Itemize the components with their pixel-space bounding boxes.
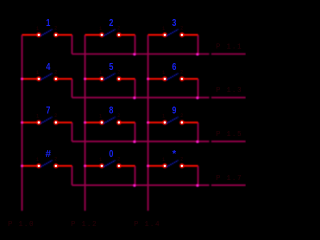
svg-text:2: 2 [109,17,113,28]
wire: row net P1.5 (horizontal y=141.4) [72,140,246,142]
wire: S11 right pin drop to row P1.7 [134,166,136,185]
switch S8 (key "8") [85,105,135,125]
lead: S12 pin 1 (left) [148,165,165,167]
svg-text:2: 2 [54,26,57,32]
contact: S10 right [54,164,59,169]
lead: S5 pin 1 (left) [85,78,102,80]
lead: S3 pin 1 (left) [148,34,165,36]
lever: S4 (open) [41,73,53,79]
contact: S2 left [99,33,104,38]
svg-text:1: 1 [99,26,102,32]
svg-text:7: 7 [46,105,50,116]
svg-text:6: 6 [172,61,176,72]
wire: S12 right pin drop to row P1.7 [197,166,199,185]
contact: S8 left [99,120,104,125]
junction: row P1.5 / drop x=135 [133,140,136,143]
svg-text:2: 2 [54,70,57,76]
svg-text:3: 3 [172,17,176,28]
svg-text:2: 2 [180,26,183,32]
svg-text:1: 1 [36,70,39,76]
contact: S8 right [117,120,122,125]
wire: S8 right pin drop to row P1.5 [134,123,136,142]
lever: S2 (open) [104,29,116,35]
svg-text:P 1.2: P 1.2 [71,221,97,229]
svg-text:1: 1 [36,114,39,120]
contact: S1 right [54,33,59,38]
junction: row P1.3 / drop x=198 [196,97,199,100]
lever: S3 (open) [167,29,179,35]
lead: S2 pin 2 (right) [119,34,135,36]
contact: S4 left [36,77,41,82]
junction: column P1.4 / S9 pin1 [147,121,150,124]
lever: S8 (open) [104,117,116,123]
contact: S9 left [162,120,167,125]
wire: row net P1.3 (horizontal y=97.6) [72,97,246,99]
svg-text:1: 1 [36,26,39,32]
lead: S9 pin 1 (left) [148,122,165,124]
junction: column P1.4 / S6 pin1 [147,78,150,81]
lead: S4 pin 2 (right) [56,78,72,80]
lead: S7 pin 2 (right) [56,122,72,124]
switch S4 (key "4") [22,61,72,81]
junction: row P1.1 / drop x=135 [133,53,136,56]
contact: S6 left [162,77,167,82]
svg-text:2: 2 [117,26,120,32]
lever: S7 (open) [41,117,53,123]
svg-text:1: 1 [99,157,102,163]
contact: S12 left [162,164,167,169]
contact: S9 right [180,120,185,125]
lead: S1 pin 2 (right) [56,34,72,36]
lever: S5 (open) [104,73,116,79]
switch S6 (key "6") [148,61,198,81]
wire: S10 right pin drop to row P1.7 [71,166,73,185]
lead: S10 pin 1 (left) [22,165,39,167]
contact: S11 right [117,164,122,169]
switch S7 (key "7") [22,105,72,125]
svg-text:2: 2 [180,157,183,163]
svg-text:4: 4 [46,61,50,72]
wire: column net P1.4 (vertical x=148) [147,35,149,211]
svg-text:5: 5 [109,61,113,72]
wire: S5 right pin drop to row P1.3 [134,79,136,98]
contact: S12 right [180,164,185,169]
lead: S9 pin 2 (right) [182,122,198,124]
lead: S3 pin 2 (right) [182,34,198,36]
switch S10 (key "#") [22,149,72,168]
junction: column P1.2 / S8 pin1 [84,121,87,124]
junction: column P1.2 / S5 pin1 [84,78,87,81]
svg-text:*: * [172,149,176,160]
lever: S9 (open) [167,117,179,123]
junction: column P1.2 / S11 pin1 [84,165,87,168]
wire: row net P1.1 (horizontal y=54) [72,53,246,55]
lead: S6 pin 2 (right) [182,78,198,80]
svg-text:2: 2 [180,70,183,76]
svg-text:0: 0 [109,148,113,159]
svg-text:#: # [45,149,51,160]
junction: row P1.3 / drop x=135 [133,97,136,100]
switch S12 (key "*") [148,149,198,168]
lead: S5 pin 2 (right) [119,78,135,80]
svg-text:P 1.1: P 1.1 [216,44,242,52]
lead: S8 pin 2 (right) [119,122,135,124]
svg-text:P 1.3: P 1.3 [216,87,242,95]
svg-text:2: 2 [117,113,120,119]
svg-text:1: 1 [162,70,165,76]
switch S9 (key "9") [148,105,198,125]
switch S11 (key "0") [85,148,135,168]
svg-text:1: 1 [99,114,102,120]
wire: S2 right pin drop to row P1.1 [134,35,136,54]
svg-text:1: 1 [162,157,165,163]
contact: S6 right [180,77,185,82]
switch S3 (key "3") [148,17,198,37]
svg-text:2: 2 [117,70,120,76]
svg-text:2: 2 [117,157,120,163]
lever: S11 (open) [104,160,116,166]
wire: S7 right pin drop to row P1.5 [71,123,73,142]
contact: S3 right [180,33,185,38]
svg-text:P 1.7: P 1.7 [216,175,242,183]
svg-text:2: 2 [54,157,57,163]
contact: S1 left [36,33,41,38]
svg-text:P 1.4: P 1.4 [134,221,160,229]
junction: row P1.7 / drop x=135 [133,184,136,187]
lever: S12 (open) [167,160,179,166]
lead: S7 pin 1 (left) [22,122,39,124]
wire: S3 right pin drop to row P1.1 [197,35,199,54]
svg-text:1: 1 [99,70,102,76]
contact: S5 left [99,77,104,82]
junction: row P1.5 / drop x=198 [196,140,199,143]
wire: S1 right pin drop to row P1.1 [71,35,73,54]
lead: S12 pin 2 (right) [182,165,198,167]
svg-text:9: 9 [172,105,176,116]
svg-text:1: 1 [36,157,39,163]
junction: column P1.4 / S12 pin1 [147,165,150,168]
contact: S10 left [36,164,41,169]
junction: row P1.7 / drop x=198 [196,184,199,187]
contact: S5 right [117,77,122,82]
contact: S11 left [99,164,104,169]
contact: S7 right [54,120,59,125]
junction: column P1.0 / S7 pin1 [21,121,24,124]
lead: S11 pin 2 (right) [119,165,135,167]
svg-text:P 1.5: P 1.5 [216,131,242,139]
svg-text:1: 1 [46,17,50,28]
contact: S4 right [54,77,59,82]
contact: S2 right [117,33,122,38]
svg-text:2: 2 [54,113,57,119]
svg-text:1: 1 [162,114,165,120]
lead: S10 pin 2 (right) [56,165,72,167]
lead: S2 pin 1 (left) [85,34,102,36]
svg-text:1: 1 [162,26,165,32]
lead: S1 pin 1 (left) [22,34,39,36]
wire: column net P1.0 (vertical x=22) [21,35,23,211]
lead: S8 pin 1 (left) [85,122,102,124]
svg-text:8: 8 [109,105,113,116]
wire: column net P1.2 (vertical x=85) [84,35,86,211]
wire: S4 right pin drop to row P1.3 [71,79,73,98]
lever: S10 (open) [41,160,53,166]
switch S1 (key "1") [22,17,72,37]
lever: S6 (open) [167,73,179,79]
wire: S6 right pin drop to row P1.3 [197,79,199,98]
lead: S4 pin 1 (left) [22,78,39,80]
contact: S7 left [36,120,41,125]
svg-text:2: 2 [180,113,183,119]
wire: row net P1.7 (horizontal y=185.2) [72,184,246,186]
switch S5 (key "5") [85,61,135,81]
lever: S1 (open) [41,29,53,35]
lead: S6 pin 1 (left) [148,78,165,80]
contact: S3 left [162,33,167,38]
junction: column P1.0 / S4 pin1 [21,78,24,81]
wire: S9 right pin drop to row P1.5 [197,123,199,142]
switch S2 (key "2") [85,17,135,37]
svg-text:P 1.0: P 1.0 [8,221,34,229]
junction: column P1.0 / S10 pin1 [21,165,24,168]
junction: row P1.1 / drop x=198 [196,53,199,56]
lead: S11 pin 1 (left) [85,165,102,167]
